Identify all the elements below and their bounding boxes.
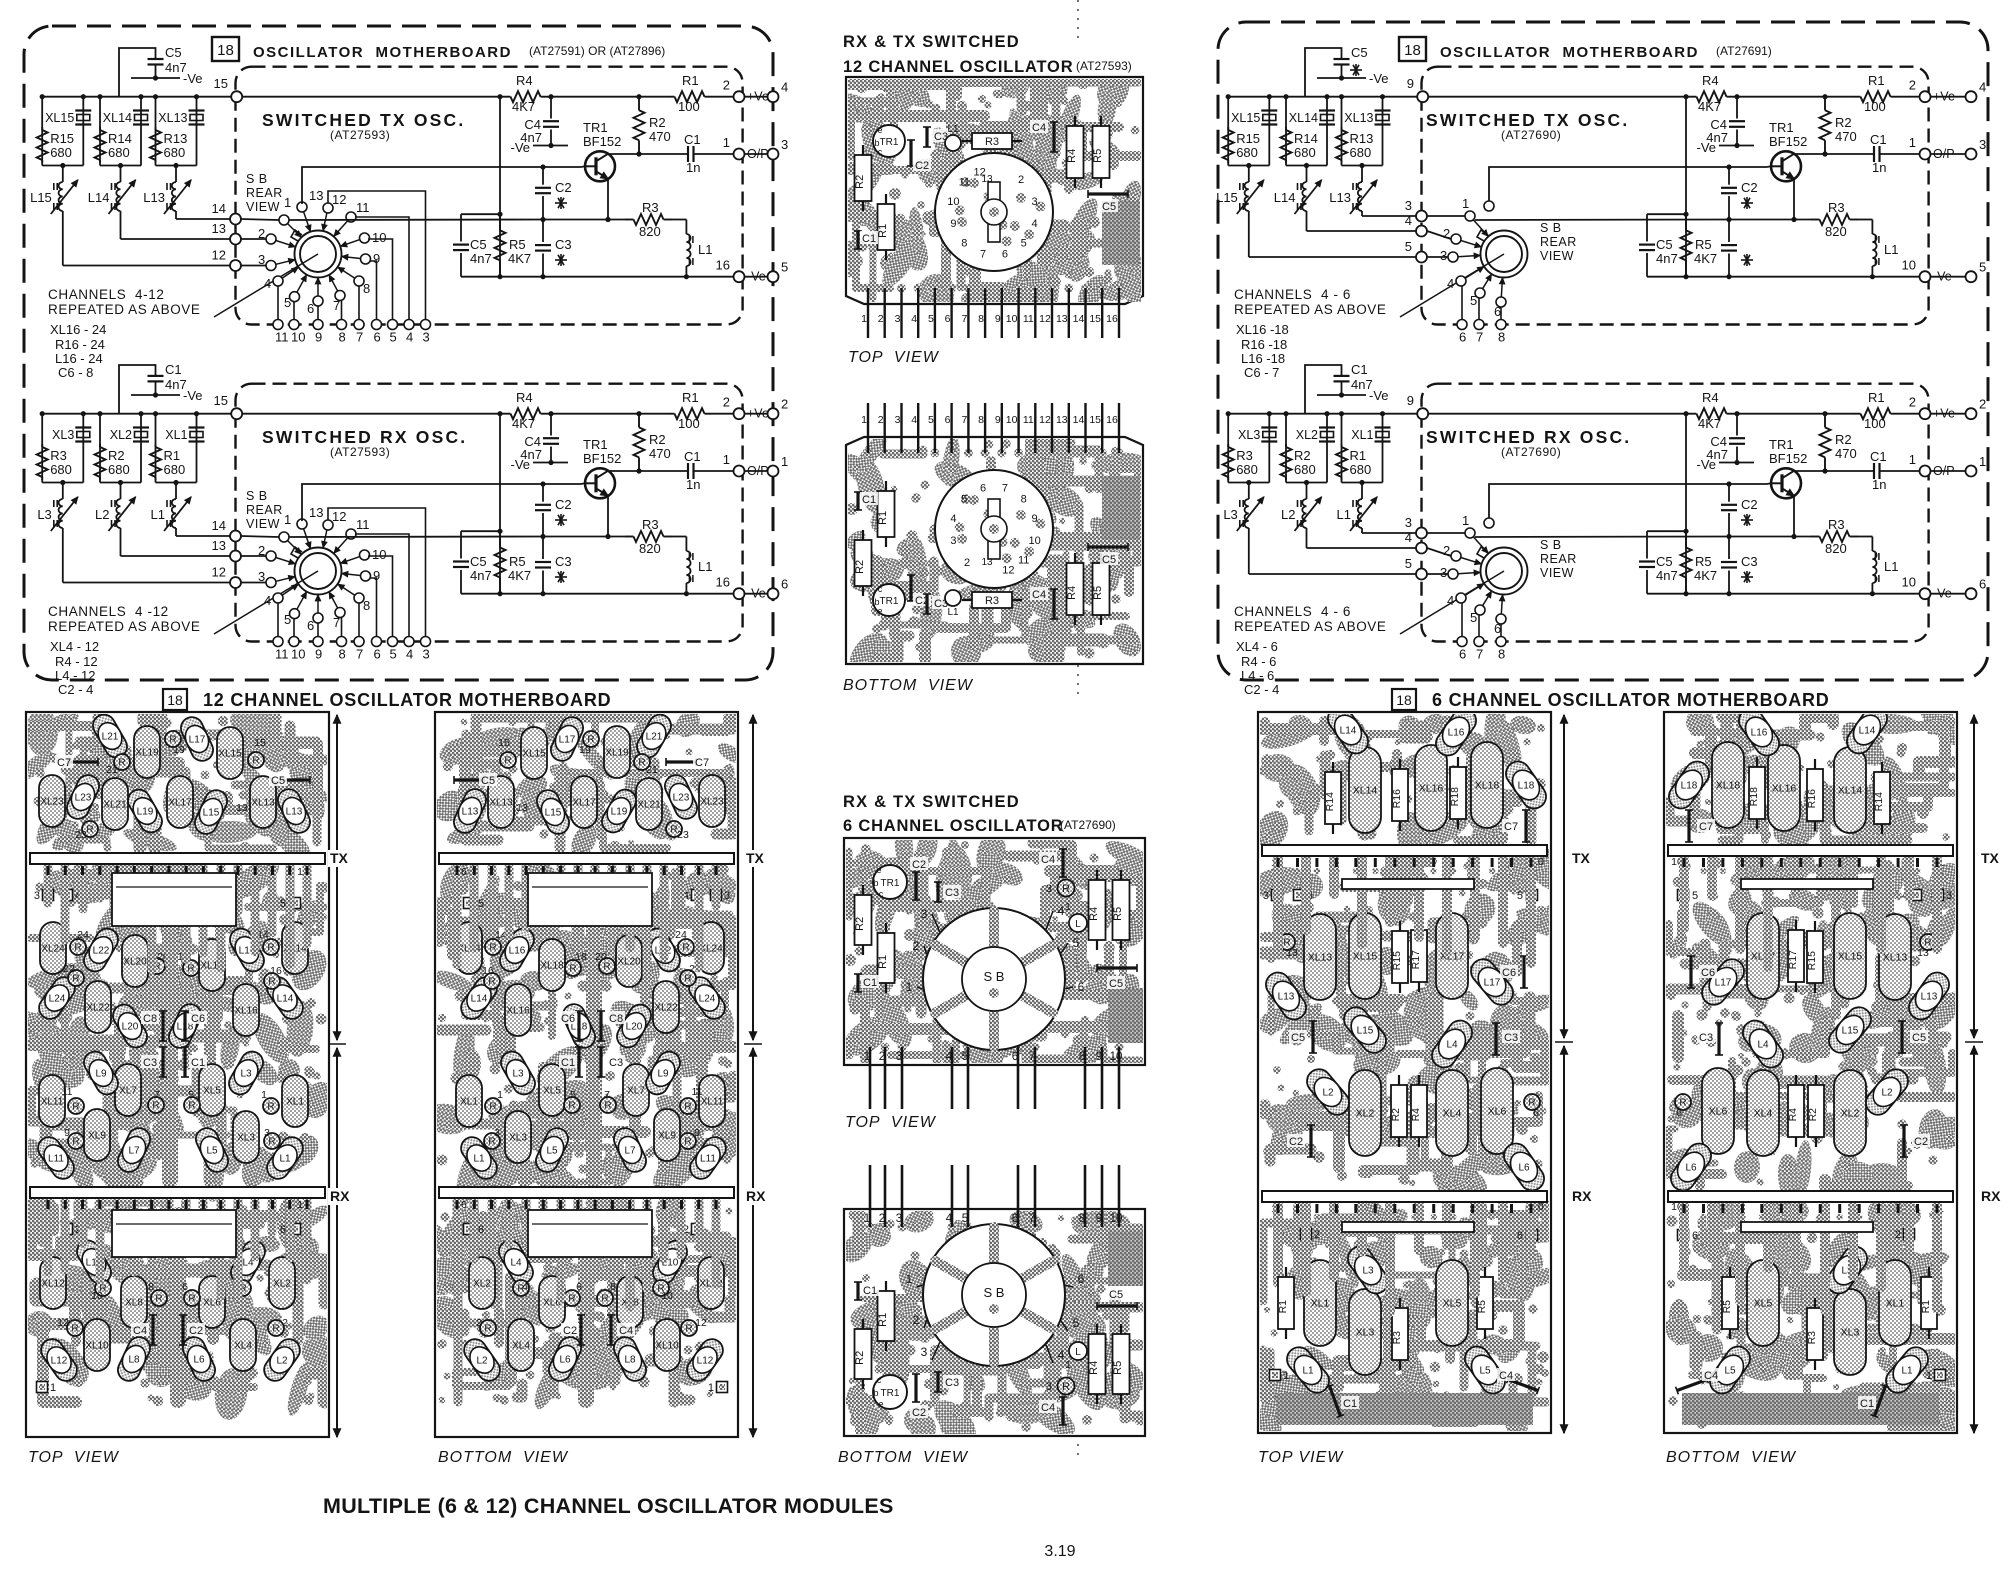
svg-text:XL13: XL13	[158, 111, 187, 125]
svg-text:XL3: XL3	[1238, 428, 1260, 442]
svg-text:C1: C1	[863, 977, 877, 989]
svg-text:1: 1	[1462, 513, 1469, 528]
svg-text:R: R	[601, 1294, 608, 1305]
svg-text:XL1: XL1	[286, 1097, 304, 1108]
svg-text:16: 16	[1106, 414, 1118, 426]
svg-text:R4: R4	[1066, 149, 1078, 163]
svg-text:XL23: XL23	[40, 797, 64, 808]
svg-text:R: R	[489, 1102, 496, 1113]
svg-text:C7: C7	[1699, 821, 1713, 833]
svg-text:7: 7	[1029, 1213, 1035, 1225]
svg-text:L15: L15	[30, 190, 52, 205]
svg-text:680: 680	[1294, 462, 1316, 477]
svg-text:10: 10	[291, 647, 305, 662]
svg-text:5: 5	[961, 494, 967, 506]
svg-text:23: 23	[677, 829, 689, 841]
svg-text:3: 3	[781, 137, 788, 152]
svg-text:9: 9	[1032, 513, 1038, 525]
svg-text:8: 8	[961, 237, 967, 249]
svg-text:7: 7	[356, 647, 363, 662]
svg-text:C7: C7	[57, 757, 71, 769]
svg-text:+Ve: +Ve	[747, 407, 769, 421]
svg-text:XL13: XL13	[1883, 952, 1908, 964]
svg-text:L21: L21	[646, 732, 663, 743]
svg-text:R3: R3	[1828, 517, 1845, 532]
svg-text:TX: TX	[330, 850, 349, 866]
svg-text:9: 9	[995, 313, 1001, 325]
svg-text:C1: C1	[191, 1057, 205, 1069]
svg-text:5: 5	[1405, 556, 1412, 571]
svg-text:5: 5	[570, 1089, 576, 1101]
svg-text:TOP VIEW: TOP VIEW	[848, 349, 940, 366]
svg-text:11: 11	[1018, 554, 1029, 566]
svg-text:XL16 -18: XL16 -18	[1236, 322, 1289, 337]
svg-text:C2: C2	[1914, 1136, 1928, 1148]
svg-text:4: 4	[781, 80, 788, 95]
svg-text:RX: RX	[1981, 1188, 2001, 1204]
svg-text:680: 680	[1350, 145, 1372, 160]
svg-text:R5: R5	[1092, 586, 1104, 600]
svg-text:1n: 1n	[686, 160, 700, 175]
svg-text:C5: C5	[1109, 1289, 1123, 1301]
svg-text:C1: C1	[863, 1285, 877, 1297]
svg-text:20: 20	[595, 951, 607, 963]
svg-text:3: 3	[1046, 1381, 1052, 1393]
svg-text:10: 10	[1006, 414, 1018, 426]
svg-text:R: R	[72, 1102, 79, 1113]
svg-text:L15: L15	[1357, 1026, 1374, 1037]
svg-text:XL6: XL6	[1488, 1106, 1507, 1118]
svg-text:XL1: XL1	[1886, 1298, 1905, 1310]
svg-text:2: 2	[723, 78, 730, 93]
svg-text:7: 7	[333, 298, 340, 313]
svg-text:C2: C2	[555, 180, 572, 195]
svg-text:13: 13	[1917, 947, 1929, 959]
svg-text:R18: R18	[1748, 787, 1760, 806]
svg-text:-Ve: -Ve	[1696, 140, 1716, 155]
svg-text:10: 10	[372, 230, 386, 245]
svg-text:12: 12	[695, 1317, 707, 1329]
svg-text:2: 2	[878, 414, 884, 426]
svg-text:C2: C2	[912, 859, 926, 871]
svg-text:L: L	[1075, 919, 1081, 930]
svg-text:-Ve: -Ve	[1696, 457, 1716, 472]
svg-text:C1: C1	[561, 1057, 575, 1069]
svg-text:TR1: TR1	[583, 437, 608, 452]
svg-text:4K7: 4K7	[1694, 251, 1717, 266]
svg-text:R: R	[267, 1102, 274, 1113]
svg-text:6: 6	[374, 330, 381, 345]
svg-text:23: 23	[75, 829, 87, 841]
svg-text:4K7: 4K7	[1698, 416, 1721, 431]
svg-text:4: 4	[1447, 276, 1454, 291]
svg-text:6: 6	[1012, 1051, 1018, 1063]
svg-text:L14: L14	[1859, 726, 1876, 737]
svg-text:XL5: XL5	[1754, 1298, 1773, 1310]
svg-text:L23: L23	[75, 793, 92, 804]
svg-text:R1: R1	[877, 955, 889, 969]
svg-text:10: 10	[661, 1290, 673, 1302]
svg-text:TOP VIEW: TOP VIEW	[28, 1449, 120, 1466]
svg-text:1: 1	[497, 1089, 503, 1101]
svg-text:4: 4	[406, 647, 413, 662]
svg-text:+Ve: +Ve	[1933, 407, 1955, 421]
svg-text:7: 7	[961, 313, 967, 325]
svg-text:R: R	[155, 1294, 162, 1305]
svg-text:R: R	[1062, 883, 1070, 895]
svg-text:C3: C3	[945, 1377, 959, 1389]
svg-text:L19: L19	[137, 807, 154, 818]
svg-text:13: 13	[309, 188, 323, 203]
svg-text:4n7: 4n7	[1656, 251, 1678, 266]
svg-text:S B: S B	[246, 489, 268, 503]
svg-text:XL15: XL15	[522, 749, 546, 760]
svg-text:7: 7	[356, 330, 363, 345]
svg-text:L15: L15	[203, 808, 220, 819]
svg-text:8: 8	[339, 330, 346, 345]
svg-text:R1: R1	[164, 448, 181, 463]
svg-text:L1: L1	[1302, 1366, 1314, 1377]
svg-text:2: 2	[1979, 397, 1986, 412]
svg-text:L1: L1	[1337, 507, 1351, 522]
svg-text:8: 8	[1498, 330, 1505, 345]
svg-text:R: R	[488, 977, 495, 988]
svg-text:XL15: XL15	[45, 111, 74, 125]
svg-text:R3: R3	[1236, 448, 1253, 463]
svg-text:XL4: XL4	[1443, 1108, 1462, 1120]
svg-text:C3: C3	[609, 1057, 623, 1069]
svg-text:R3: R3	[985, 595, 999, 607]
svg-text:-Ve: -Ve	[1369, 388, 1389, 403]
svg-text:10: 10	[291, 330, 305, 345]
svg-text:-Ve: -Ve	[1369, 71, 1389, 86]
svg-text:3: 3	[1946, 890, 1952, 902]
svg-text:1: 1	[1909, 135, 1916, 150]
svg-text:2: 2	[964, 557, 970, 569]
svg-text:C2: C2	[1741, 497, 1758, 512]
svg-text:6: 6	[374, 647, 381, 662]
svg-text:C6: C6	[561, 1013, 575, 1025]
svg-text:R: R	[604, 1101, 611, 1112]
svg-text:R: R	[569, 964, 576, 975]
svg-text:L11: L11	[700, 1154, 716, 1165]
svg-text:R2: R2	[854, 917, 866, 931]
svg-text:R15: R15	[50, 131, 74, 146]
svg-text:BOTTOM VIEW: BOTTOM VIEW	[1666, 1449, 1797, 1466]
svg-text:R2: R2	[1835, 115, 1852, 130]
svg-text:21: 21	[106, 764, 118, 776]
svg-text:R2: R2	[854, 1351, 866, 1365]
svg-text:R3: R3	[1806, 1331, 1818, 1345]
svg-text:L18: L18	[1518, 781, 1535, 792]
svg-text:C1: C1	[1343, 1398, 1357, 1410]
svg-text:L21: L21	[102, 732, 119, 743]
svg-text:6: 6	[1002, 249, 1008, 261]
svg-text:R5: R5	[1092, 149, 1104, 163]
svg-text:R16: R16	[1806, 789, 1818, 808]
svg-text:1: 1	[1065, 1360, 1071, 1371]
svg-text:2: 2	[1018, 174, 1024, 186]
svg-text:470: 470	[1835, 129, 1857, 144]
svg-text:3: 3	[1263, 890, 1269, 902]
svg-text:6: 6	[1078, 980, 1085, 994]
svg-text:TOP VIEW: TOP VIEW	[1258, 1449, 1344, 1466]
svg-text:XL3: XL3	[509, 1133, 527, 1144]
svg-text:R3: R3	[642, 200, 659, 215]
svg-text:8: 8	[978, 313, 984, 325]
svg-text:R4: R4	[1088, 1361, 1100, 1375]
svg-text:R5: R5	[1476, 1300, 1488, 1314]
svg-text:2: 2	[913, 939, 920, 953]
svg-text:R5: R5	[509, 554, 526, 569]
svg-text:4: 4	[1405, 530, 1412, 545]
svg-text:680: 680	[164, 145, 186, 160]
svg-text:5: 5	[1073, 1316, 1080, 1330]
svg-text:10: 10	[1110, 1051, 1123, 1063]
svg-text:3: 3	[264, 1127, 270, 1139]
svg-text:R: R	[489, 943, 496, 954]
svg-text:XL14: XL14	[103, 111, 132, 125]
svg-text:5: 5	[1979, 260, 1986, 275]
svg-text:L13: L13	[1921, 992, 1938, 1003]
svg-text:11: 11	[959, 177, 970, 189]
svg-text:820: 820	[1825, 541, 1847, 556]
svg-text:XL14: XL14	[1838, 785, 1863, 797]
svg-text:TOP VIEW: TOP VIEW	[845, 1114, 937, 1131]
svg-text:(AT27690): (AT27690)	[1501, 445, 1561, 459]
svg-text:R: R	[504, 756, 511, 767]
svg-text:12: 12	[1039, 414, 1051, 426]
svg-text:13: 13	[212, 538, 226, 553]
svg-text:BF152: BF152	[1769, 134, 1807, 149]
svg-text:XL9: XL9	[88, 1131, 106, 1142]
svg-text:R1: R1	[1868, 390, 1885, 405]
svg-text:R: R	[568, 1101, 575, 1112]
svg-text:14: 14	[212, 201, 226, 216]
svg-text:2: 2	[1895, 1229, 1901, 1241]
svg-text:L9: L9	[95, 1069, 107, 1080]
svg-text:TR1: TR1	[881, 1388, 900, 1399]
svg-text:100: 100	[1864, 99, 1886, 114]
svg-text:L15: L15	[1842, 1026, 1859, 1037]
svg-text:R4: R4	[1702, 390, 1719, 405]
svg-text:5: 5	[390, 647, 397, 662]
svg-text:5: 5	[478, 898, 484, 910]
svg-text:TX: TX	[746, 850, 765, 866]
svg-text:XL16: XL16	[1772, 783, 1797, 795]
svg-text:XL11: XL11	[701, 1097, 724, 1108]
svg-text:6: 6	[1012, 1213, 1018, 1225]
svg-text:680: 680	[1294, 145, 1316, 160]
svg-text:C2: C2	[1289, 1136, 1303, 1148]
svg-text:18: 18	[1404, 42, 1421, 59]
svg-text:4: 4	[522, 1281, 528, 1293]
svg-text:C1: C1	[165, 362, 182, 377]
svg-text:XL16: XL16	[234, 1006, 258, 1017]
svg-text:R: R	[188, 1294, 195, 1305]
svg-text:820: 820	[639, 541, 661, 556]
svg-text:L2: L2	[1881, 1088, 1893, 1099]
svg-text:15: 15	[214, 393, 228, 408]
svg-text:4: 4	[1447, 593, 1454, 608]
svg-text:R4: R4	[1066, 586, 1078, 600]
svg-text:OSCILLATOR MOTHERBOARD: OSCILLATOR MOTHERBOARD	[1440, 44, 1699, 61]
svg-text:1: 1	[1065, 902, 1071, 913]
svg-text:R2: R2	[1835, 432, 1852, 447]
svg-text:16: 16	[482, 965, 494, 977]
svg-text:XL7: XL7	[119, 1086, 137, 1097]
svg-text:R3: R3	[50, 448, 67, 463]
svg-text:L13: L13	[143, 190, 165, 205]
svg-text:6: 6	[576, 1281, 582, 1293]
svg-text:R5: R5	[509, 237, 526, 252]
svg-text:-Ve: -Ve	[1933, 587, 1952, 601]
svg-text:L4: L4	[1446, 1040, 1458, 1051]
svg-text:L13: L13	[462, 807, 479, 818]
svg-text:7: 7	[980, 249, 986, 261]
svg-text:4: 4	[1979, 80, 1986, 95]
svg-text:SWITCHED TX OSC.: SWITCHED TX OSC.	[1426, 110, 1629, 130]
svg-text:L1: L1	[698, 242, 712, 257]
svg-text:O/P: O/P	[1933, 464, 1955, 478]
svg-text:3: 3	[896, 1051, 902, 1063]
svg-text:O/P: O/P	[1933, 147, 1955, 161]
svg-text:L1: L1	[279, 1154, 291, 1165]
svg-text:C5: C5	[470, 554, 487, 569]
svg-text:C5: C5	[1656, 237, 1673, 252]
svg-text:C3: C3	[1741, 554, 1758, 569]
svg-text:L3: L3	[512, 1069, 524, 1080]
svg-text:XL18: XL18	[1716, 780, 1741, 792]
svg-text:L18: L18	[1681, 781, 1698, 792]
svg-text:1: 1	[864, 1213, 870, 1225]
svg-text:L6: L6	[1685, 1163, 1697, 1174]
svg-text:R2: R2	[649, 432, 666, 447]
svg-text:6: 6	[1692, 1230, 1698, 1242]
svg-text:4: 4	[946, 1213, 953, 1225]
svg-text:R: R	[72, 1137, 79, 1148]
svg-text:O/P: O/P	[747, 464, 769, 478]
svg-text:REPEATED AS ABOVE: REPEATED AS ABOVE	[1234, 302, 1387, 317]
svg-text:6: 6	[307, 301, 314, 316]
svg-text:R1: R1	[682, 390, 699, 405]
svg-text:XL2: XL2	[273, 1279, 291, 1290]
svg-text:18: 18	[217, 42, 234, 59]
svg-text:L19: L19	[611, 807, 628, 818]
svg-text:6: 6	[1459, 647, 1466, 662]
svg-text:R2: R2	[108, 448, 125, 463]
svg-text:L8: L8	[624, 1355, 636, 1366]
svg-text:1: 1	[1909, 452, 1916, 467]
svg-text:R: R	[568, 1294, 575, 1305]
svg-text:680: 680	[1350, 462, 1372, 477]
svg-text:XL4 - 6: XL4 - 6	[1236, 639, 1278, 654]
svg-text:XL18: XL18	[540, 961, 564, 972]
svg-text:8: 8	[339, 647, 346, 662]
svg-text:7: 7	[1476, 647, 1483, 662]
svg-text:5: 5	[188, 1089, 194, 1101]
svg-text:C5: C5	[470, 237, 487, 252]
svg-text:R16: R16	[1391, 789, 1403, 808]
svg-text:10: 10	[1902, 258, 1916, 273]
svg-text:4: 4	[406, 330, 413, 345]
svg-text:XL2: XL2	[110, 428, 132, 442]
svg-text:1: 1	[723, 452, 730, 467]
svg-text:L15: L15	[1216, 190, 1238, 205]
svg-text:C6 - 8: C6 - 8	[58, 365, 93, 380]
svg-text:3: 3	[724, 890, 730, 902]
svg-text:C5: C5	[1109, 978, 1123, 990]
svg-text:9: 9	[1407, 393, 1414, 408]
svg-text:5: 5	[390, 330, 397, 345]
svg-text:XL15: XL15	[1231, 111, 1260, 125]
svg-text:BF152: BF152	[1769, 451, 1807, 466]
svg-text:8: 8	[978, 414, 984, 426]
svg-text:19: 19	[173, 744, 185, 756]
svg-text:5: 5	[1021, 237, 1027, 249]
svg-text:C5: C5	[1291, 1032, 1305, 1044]
svg-text:R5: R5	[1112, 1361, 1124, 1375]
svg-text:5: 5	[1073, 936, 1080, 950]
svg-text:XL13: XL13	[1308, 952, 1333, 964]
svg-text:XL14: XL14	[1289, 111, 1318, 125]
svg-text:7: 7	[604, 1089, 610, 1101]
svg-text:19: 19	[579, 744, 591, 756]
svg-text:R5: R5	[1695, 554, 1712, 569]
svg-text:(AT27593): (AT27593)	[330, 445, 390, 459]
svg-text:L1: L1	[947, 124, 959, 135]
svg-text:XL8: XL8	[125, 1298, 143, 1309]
svg-text:XL2: XL2	[1356, 1108, 1375, 1120]
svg-text:8: 8	[363, 598, 370, 613]
svg-text:C7: C7	[1504, 821, 1518, 833]
svg-text:L14: L14	[471, 994, 488, 1005]
svg-text:14: 14	[212, 518, 226, 533]
svg-text:XL3: XL3	[52, 428, 74, 442]
svg-text:5: 5	[928, 414, 934, 426]
svg-text:L16: L16	[509, 946, 526, 957]
svg-text:12: 12	[57, 1317, 69, 1329]
svg-text:12 CHANNEL OSCILLATOR MOTHERBO: 12 CHANNEL OSCILLATOR MOTHERBOARD	[203, 690, 611, 710]
svg-text:C5: C5	[1102, 201, 1116, 213]
svg-text:R: R	[684, 1137, 691, 1148]
svg-text:L1: L1	[473, 1154, 485, 1165]
svg-text:R: R	[484, 1324, 491, 1335]
svg-text:XL3: XL3	[1356, 1327, 1375, 1339]
svg-text:L17: L17	[1484, 978, 1501, 989]
svg-text:5: 5	[962, 1051, 968, 1063]
svg-text:3: 3	[1046, 883, 1052, 895]
svg-text:b: b	[873, 1388, 878, 1398]
svg-text:R13: R13	[1350, 131, 1374, 146]
svg-text:11: 11	[356, 517, 370, 532]
svg-text:XL17: XL17	[572, 798, 596, 809]
svg-text:L2: L2	[476, 1356, 488, 1367]
svg-text:XL11: XL11	[41, 1097, 64, 1108]
svg-text:6: 6	[945, 313, 951, 325]
svg-text:470: 470	[1835, 446, 1857, 461]
svg-text:1: 1	[1462, 196, 1469, 211]
svg-text:10: 10	[91, 1290, 103, 1302]
svg-text:L16 - 24: L16 - 24	[55, 351, 103, 366]
svg-text:C3: C3	[143, 1057, 157, 1069]
svg-text:XL10: XL10	[85, 1341, 109, 1352]
svg-text:7: 7	[1029, 1051, 1035, 1063]
svg-text:6: 6	[1494, 621, 1501, 636]
svg-text:L2: L2	[1281, 507, 1295, 522]
svg-text:L5: L5	[1479, 1366, 1491, 1377]
svg-text:R1: R1	[682, 73, 699, 88]
